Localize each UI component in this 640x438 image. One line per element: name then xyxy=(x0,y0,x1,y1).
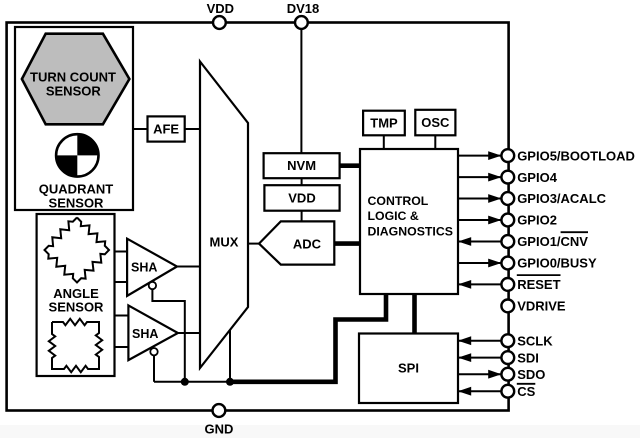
SHA2 clock bubble xyxy=(150,348,157,355)
AFE block xyxy=(148,116,185,141)
svg-text:OSC: OSC xyxy=(421,115,450,130)
svg-text:NVM: NVM xyxy=(287,158,316,173)
turn count sensor hexagon xyxy=(22,34,129,125)
SHA1 clock bubble xyxy=(149,282,156,289)
angle sensor box xyxy=(37,214,115,376)
pin CS xyxy=(458,384,536,399)
DV18 pin xyxy=(295,16,308,29)
ADC block (pentagon) xyxy=(259,221,334,264)
svg-text:MUX: MUX xyxy=(210,235,239,250)
thin bus to SHA2 clock xyxy=(154,381,230,383)
pin GPIO3/ACALC xyxy=(458,191,607,206)
wire MUX to ADC xyxy=(248,243,259,245)
wire OSC to control logic xyxy=(434,135,436,149)
pin GPIO0/BUSY xyxy=(458,256,597,271)
wire NVM to VDD regulator xyxy=(301,178,303,185)
pin SDO xyxy=(458,367,545,382)
svg-text:GPIO4: GPIO4 xyxy=(517,170,558,185)
svg-text:RESET: RESET xyxy=(517,277,560,292)
svg-text:DIAGNOSTICS: DIAGNOSTICS xyxy=(368,224,453,238)
svg-text:SPI: SPI xyxy=(398,361,419,376)
svg-text:SENSOR: SENSOR xyxy=(46,83,102,98)
thick wire NVM to control logic xyxy=(340,163,360,168)
SHA2 clock wire xyxy=(153,355,155,381)
VDD regulator block xyxy=(264,185,339,211)
svg-text:SDI: SDI xyxy=(517,350,539,365)
wire AFE to MUX xyxy=(185,128,200,130)
svg-text:GPIO2: GPIO2 xyxy=(517,213,557,228)
OSC block xyxy=(415,110,455,136)
svg-text:SHA: SHA xyxy=(131,260,157,274)
wire sensor box to AFE xyxy=(133,128,148,130)
chip boundary rectangle xyxy=(7,23,509,411)
svg-text:SCLK: SCLK xyxy=(517,333,553,348)
pin RESET xyxy=(458,275,561,292)
SPI block xyxy=(359,334,458,404)
quadrant sensor symbol xyxy=(56,134,98,176)
angle sensor diamond bridge (zigzag resistors) xyxy=(45,218,110,283)
thick wire ADC to control logic xyxy=(334,241,360,246)
pin GPIO2 xyxy=(458,213,557,228)
wire DV18 to NVM xyxy=(300,29,302,153)
junction dot B xyxy=(226,378,234,386)
control logic and diagnostics block xyxy=(360,149,458,294)
svg-text:LOGIC &: LOGIC & xyxy=(368,209,419,223)
SHA1 output wire to MUX xyxy=(177,266,200,268)
svg-text:DV18: DV18 xyxy=(287,1,320,16)
thick bus control logic to SHA clock junction xyxy=(230,294,386,382)
svg-text:TMP: TMP xyxy=(370,116,398,131)
svg-text:GPIO3/ACALC: GPIO3/ACALC xyxy=(517,191,606,206)
pin SDI xyxy=(458,350,539,365)
junction dot A xyxy=(181,378,189,386)
GND pin xyxy=(213,404,226,417)
MUX block xyxy=(200,62,248,369)
svg-text:CONTROL: CONTROL xyxy=(368,194,429,208)
pin GPIO4 xyxy=(458,170,558,185)
svg-text:GPIO0/BUSY: GPIO0/BUSY xyxy=(517,256,597,271)
svg-text:ADC: ADC xyxy=(293,236,322,251)
SHA amplifier 1 xyxy=(127,239,177,296)
svg-text:SDO: SDO xyxy=(517,367,545,382)
pin VDRIVE xyxy=(501,299,566,314)
wire MUX slant down to bus xyxy=(229,331,231,382)
pin SCLK xyxy=(458,333,553,348)
wire VDD regulator to ADC xyxy=(301,211,303,222)
svg-text:SHA: SHA xyxy=(132,327,158,341)
pin GPIO1/CNV xyxy=(458,232,588,249)
svg-text:GPIO5/BOOTLOAD: GPIO5/BOOTLOAD xyxy=(517,148,635,163)
VDD pin xyxy=(213,16,226,29)
svg-text:VDD: VDD xyxy=(207,1,234,16)
NVM block xyxy=(264,153,340,178)
svg-text:VDRIVE: VDRIVE xyxy=(517,299,566,314)
svg-text:SENSOR: SENSOR xyxy=(49,195,105,210)
svg-text:CS: CS xyxy=(517,384,535,399)
SHA1 clock wire xyxy=(152,289,184,382)
svg-text:SENSOR: SENSOR xyxy=(49,299,105,314)
svg-text:AFE: AFE xyxy=(153,122,179,137)
SHA amplifier 2 xyxy=(128,305,178,360)
angle sensor output wires to SHA inputs xyxy=(115,251,128,253)
wire TMP to control logic xyxy=(383,135,385,149)
svg-text:GPIO1/CNV: GPIO1/CNV xyxy=(517,234,588,249)
angle sensor square bridge (zigzag resistors) xyxy=(49,319,102,372)
SHA2 output wire to MUX xyxy=(178,332,200,334)
TMP block xyxy=(363,111,405,136)
svg-text:GND: GND xyxy=(204,422,233,437)
sensor block box (turn count / quadrant) xyxy=(15,27,133,210)
pin GPIO5/BOOTLOAD xyxy=(458,148,635,163)
thick bus control logic to SPI xyxy=(412,294,417,334)
svg-text:VDD: VDD xyxy=(288,191,315,206)
